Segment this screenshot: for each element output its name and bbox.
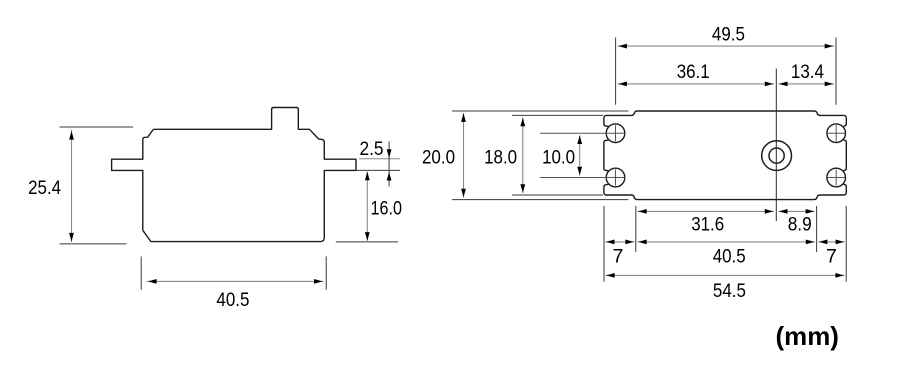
svg-text:40.5: 40.5: [216, 289, 249, 311]
dimension 13.4: left arrow: [779, 82, 788, 87]
svg-text:54.5: 54.5: [713, 280, 746, 302]
dimension 49.5: right extension line: [835, 38, 837, 105]
dimension 49.5: right arrow: [825, 44, 834, 49]
dimension 2.5: up arrow: [387, 172, 392, 181]
svg-text:16.0: 16.0: [371, 198, 403, 220]
dimension 25.4: bottom extension line: [60, 243, 127, 245]
hole bottom-left vertical cross mark: [615, 170, 617, 186]
svg-text:8.9: 8.9: [788, 214, 812, 236]
dimension 16.0: up arrow: [365, 172, 370, 181]
dimension 7 right: left arrow: [819, 240, 828, 245]
svg-text:36.1: 36.1: [677, 61, 710, 83]
output shaft outer circle: [762, 141, 792, 171]
hole top-left vertical cross mark: [615, 125, 617, 141]
svg-text:10.0: 10.0: [542, 147, 575, 169]
dimension 10.0: top extension line (through hole): [540, 132, 625, 134]
dimension 20.0: up arrow: [461, 113, 466, 122]
dimension 40.5 side: right extension line: [325, 256, 327, 289]
dimension 25.4: top extension line: [60, 126, 134, 128]
dimension 20.0: dimension line: [463, 113, 465, 198]
dimension 13.4: right arrow: [825, 82, 834, 87]
dimension 2.5: flange top extension line: [359, 158, 400, 160]
dimension 20.0: top extension line: [452, 110, 628, 112]
dimension 40.5 top view: right arrow: [806, 240, 815, 245]
dimension 18.0: dimension line: [522, 118, 524, 194]
svg-text:25.4: 25.4: [28, 177, 61, 199]
dimension 40.5 top view: left arrow: [638, 240, 647, 245]
dimension 18.0: bottom extension line: [512, 194, 603, 196]
svg-text:18.0: 18.0: [484, 147, 517, 169]
hole bottom-right horizontal cross mark: [827, 177, 845, 179]
dimension 20.0: bottom extension line: [452, 199, 628, 201]
dimension 7 left: dimension line: [606, 241, 635, 243]
hole top-right vertical cross mark: [835, 125, 837, 141]
dimension 31.6: right arrow: [765, 209, 774, 214]
extension line: body left edge (bottom): [635, 206, 637, 252]
dimension 49.5: left arrow: [618, 44, 627, 49]
dimension 7 left: left arrow: [606, 240, 615, 245]
hole bottom-right vertical cross mark: [835, 170, 837, 186]
dimension 40.5 top view: dimension line: [638, 241, 815, 243]
output shaft inner circle: [769, 148, 784, 163]
dimension 16.0: down arrow: [365, 232, 370, 241]
svg-text:13.4: 13.4: [791, 61, 824, 83]
side view: servo body outline: [112, 108, 356, 242]
dimension 25.4: down arrow: [69, 233, 74, 242]
dimension 40.5 side: right arrow: [314, 279, 323, 284]
svg-text:31.6: 31.6: [691, 214, 724, 236]
extension line: body right edge (bottom): [816, 206, 818, 252]
dimension 7 left: right arrow: [625, 240, 634, 245]
dimension 8.9: right arrow: [806, 209, 815, 214]
dimension 20.0: down arrow: [461, 189, 466, 198]
dimension 16.0: bottom extension line: [336, 241, 398, 243]
svg-text:40.5: 40.5: [713, 245, 746, 267]
dimension 16.0: dimension line: [366, 172, 368, 241]
top view: right ear edge between slots: [844, 140, 847, 171]
dimension 54.5: left arrow: [606, 273, 615, 278]
dimension 7 right: dimension line: [818, 241, 844, 243]
dimension 2.5: vertical line: [388, 142, 390, 187]
dimension 2.5: flange bottom extension line: [356, 169, 400, 171]
extension line: right ear outer edge (bottom): [845, 206, 847, 282]
mounting hole bottom-left: [606, 168, 625, 187]
dimension 31.6: left arrow: [638, 209, 647, 214]
svg-text:20.0: 20.0: [422, 147, 455, 169]
dimension 10.0: dimension line: [579, 135, 581, 175]
mounting hole top-right: [827, 124, 846, 143]
dimension 13.4: dimension line: [779, 83, 835, 85]
hole top-right horizontal cross mark: [827, 132, 845, 134]
dimension 10.0: bottom extension line (through hole): [540, 177, 625, 179]
dimension 54.5: right arrow: [835, 273, 844, 278]
dimension 54.5: dimension line: [606, 274, 845, 276]
svg-text:49.5: 49.5: [712, 23, 745, 45]
svg-text:7: 7: [613, 245, 624, 267]
svg-text:2.5: 2.5: [360, 138, 384, 160]
dimension 49.5: dimension line: [618, 45, 835, 47]
dimension 10.0: up arrow: [577, 135, 582, 144]
dimension 2.5: down arrow: [387, 149, 392, 158]
shaft vertical center line: [775, 69, 777, 222]
dimension 36.1: left arrow: [618, 82, 627, 87]
dimension 36.1: right arrow: [765, 82, 774, 87]
dimension 8.9: left arrow: [779, 209, 788, 214]
dimension 7 right: right arrow: [836, 240, 845, 245]
dimension 18.0: up arrow: [520, 118, 525, 127]
dimension 25.4: dimension line: [71, 130, 73, 242]
dimension 40.5 side: left extension line: [140, 256, 142, 289]
dimension 49.5: left extension line: [615, 38, 617, 105]
top view: servo body outline with ears and slots: [638, 111, 847, 127]
dimension 18.0: down arrow: [520, 184, 525, 193]
top view: left ear edge between slots: [604, 140, 609, 171]
dimension 8.9: dimension line: [779, 210, 815, 212]
top view: right ear lower edge and bottom: [604, 184, 846, 200]
dimension 40.5 side: left arrow: [148, 279, 157, 284]
extension line: left ear outer edge (bottom): [603, 206, 605, 282]
dimension 36.1: dimension line: [618, 83, 775, 85]
mounting hole bottom-right: [827, 168, 846, 187]
top view: left ear upper edge and top: [604, 111, 638, 127]
svg-text:(mm): (mm): [776, 321, 839, 351]
dimension 18.0: top extension line: [512, 114, 603, 116]
dimension 31.6: dimension line: [638, 210, 775, 212]
dimension 10.0: down arrow: [577, 167, 582, 176]
svg-text:7: 7: [826, 245, 837, 267]
mounting hole top-left: [606, 124, 625, 143]
dimension 25.4: up arrow: [69, 131, 74, 140]
dimension 40.5 side: dimension line: [147, 280, 324, 282]
